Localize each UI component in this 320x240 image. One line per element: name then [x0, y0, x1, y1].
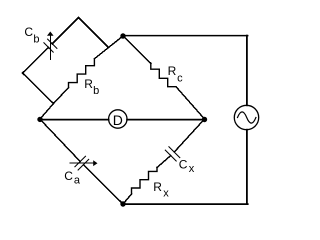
wire detector to right node [127, 119, 204, 121]
wire top node to top-right corner [123, 35, 248, 37]
detector D circle [109, 110, 127, 128]
wire left node to detector [40, 119, 109, 121]
wire right node to Cx upper plate [174, 119, 204, 152]
wire top-right corner down to source top [246, 36, 248, 106]
node left junction dot [37, 117, 42, 122]
AC source U1 circle [234, 105, 258, 129]
capacitor Cb variable arrow [47, 32, 54, 60]
capacitor Cb plates [44, 39, 57, 52]
wire parallel-branch left edge lower (bottom vertex to left vertex) [23, 73, 54, 104]
wire bottom node to bottom-right corner [123, 203, 248, 205]
wire left node to parallel-branch bottom vertex [40, 104, 54, 120]
wire left node to Ca upper plate [40, 119, 80, 161]
node top junction dot [120, 33, 125, 38]
wire Ca lower plate to bottom node [83, 165, 123, 204]
resistor Rb [54, 88, 69, 104]
wire right vertex to top node [109, 36, 124, 48]
wire Cb upper plate to top vertex [52, 18, 78, 44]
capacitor Ca plates [75, 156, 89, 170]
wire left vertex to Cb lower plate [23, 47, 49, 73]
capacitor Ca variable arrow [70, 160, 98, 166]
wire source bottom to bottom-right corner [246, 130, 248, 204]
capacitor Cx plates [165, 147, 180, 161]
wire Cx lower plate to Rx [157, 156, 171, 168]
AC source sine wave [238, 112, 256, 123]
resistor Rx [132, 168, 158, 195]
node right junction dot [202, 117, 207, 122]
svg-text:D: D [113, 112, 123, 128]
resistor Rc [123, 36, 151, 63]
node bottom junction dot [120, 201, 125, 206]
wire top vertex to right vertex of parallel branch [79, 18, 109, 48]
